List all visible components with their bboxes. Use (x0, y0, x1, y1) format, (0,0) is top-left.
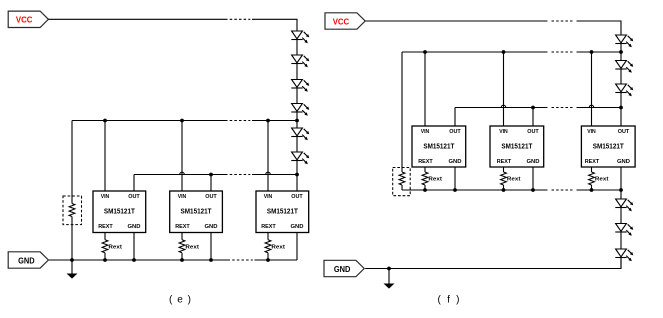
svg-text:GND: GND (527, 159, 540, 165)
svg-text:OUT: OUT (449, 129, 461, 135)
svg-text:REXT: REXT (261, 224, 276, 230)
crossover hop VIN3 riser over OUT bus (e) (266, 172, 271, 174)
bus REXT/GND (f) dashed continuation (552, 189, 573, 191)
svg-text:Rext: Rext (428, 177, 442, 183)
wire VIN6 riser (f) (591, 52, 593, 126)
resistor Rext1 (e) (102, 233, 122, 261)
bus OUT (e) dashed continuation (230, 174, 251, 176)
svg-text:Rext: Rext (271, 244, 285, 250)
LED D9 (f) (615, 84, 633, 96)
bus VIN (f) right segment (577, 51, 622, 53)
junction ground bus x=268 (e) (266, 258, 270, 262)
bus ground (e) right segment (255, 259, 298, 261)
wire OUT4 riser (f) (454, 108, 456, 127)
bus OUT (e) left segment (134, 174, 228, 176)
svg-text:VCC: VCC (16, 15, 33, 25)
bus ground (e) left segment (48, 259, 230, 261)
LED D3 (e) (291, 80, 309, 92)
wire VIN2 riser (e) (181, 121, 183, 192)
svg-text:(f): (f) (438, 295, 460, 306)
wire LED chain vertical (e) (296, 31, 298, 191)
svg-text:OUT: OUT (527, 129, 539, 135)
bus ground (e) dashed continuation (232, 259, 253, 261)
ground flag GND (e) (8, 252, 48, 268)
svg-text:VIN: VIN (499, 129, 508, 135)
wire GND5 riser (f) (532, 167, 534, 190)
wire left shunt stub to REXT bus (f) (401, 185, 403, 190)
LED D8 (f) (615, 61, 633, 73)
junction VIN bus x=297.0 (e) (295, 119, 299, 123)
junction REXT/GND bus x=455 (f) (453, 188, 457, 192)
junction OUT bus x=297.0 (e) (295, 173, 299, 177)
svg-text:(e): (e) (169, 295, 191, 306)
svg-text:REXT: REXT (98, 224, 113, 230)
svg-text:OUT: OUT (291, 194, 303, 200)
svg-text:REXT: REXT (497, 159, 512, 165)
resistor Rext3 (e) (265, 233, 285, 261)
wire VIN1 riser (e) (104, 121, 106, 192)
wire VIN3 riser (e) (267, 121, 269, 192)
wire VCC horizontal (f) right segment and drop to LED chain (577, 21, 622, 35)
op IC U6 SM15121T (f) (581, 126, 635, 167)
svg-text:GND: GND (449, 159, 462, 165)
junction VIN bus x=268 (e) (266, 119, 270, 123)
bus VIN (e) dashed continuation (230, 120, 251, 122)
svg-text:REXT: REXT (175, 224, 190, 230)
svg-text:VIN: VIN (587, 129, 596, 135)
op IC U2 SM15121T (e) (170, 191, 223, 233)
svg-text:VIN: VIN (264, 194, 273, 200)
wire left shunt vertical (f) (401, 52, 403, 172)
svg-text:Rext: Rext (507, 177, 521, 183)
LED D2 (e) (291, 55, 309, 67)
bus VIN (f) left segment (402, 51, 548, 53)
svg-text:GND: GND (291, 224, 304, 230)
bus ground (f) (365, 258, 621, 269)
wire GND6 riser (f) (620, 167, 622, 190)
junction ground bus x=105 (e) (103, 258, 107, 262)
junction ground bus ground-symbol tap (f) (387, 267, 391, 271)
wire left shunt vertical upper (e) (71, 121, 73, 204)
svg-text:VIN: VIN (178, 194, 187, 200)
power flag VCC (f) (325, 13, 365, 29)
svg-text:OUT: OUT (618, 129, 630, 135)
LED D7 (f) (615, 35, 633, 47)
junction ground bus x=134 (e) (132, 258, 136, 262)
ground flag GND (f) (324, 260, 364, 276)
LED D5 (e) (291, 128, 309, 140)
junction VIN bus x=591.5 (f) (590, 50, 594, 54)
LED D11 (f) (615, 224, 633, 236)
svg-text:SM15121T: SM15121T (104, 206, 135, 215)
bus VIN (e) right segment (252, 120, 297, 122)
svg-text:VCC: VCC (333, 16, 350, 26)
junction REXT/GND bus x=591.5 (f) (590, 188, 594, 192)
wire VCC horizontal (f) left segment (365, 20, 547, 22)
resistor Rext6 (f) (589, 167, 609, 190)
crossover hop VIN6 riser over OUT bus (f) (589, 105, 594, 107)
svg-text:VIN: VIN (101, 194, 110, 200)
wire OUT2 riser (e) (210, 175, 212, 192)
svg-text:Rext: Rext (108, 244, 122, 250)
junction VIN bus x=105 (e) (103, 119, 107, 123)
wire LED chain upper vertical (f) (620, 35, 622, 126)
svg-text:GND: GND (205, 224, 218, 230)
svg-text:Rext: Rext (595, 177, 609, 183)
svg-text:SM15121T: SM15121T (501, 141, 532, 150)
wire VIN4 riser (f) (424, 52, 426, 126)
LED D10 (f) (615, 199, 633, 211)
junction VIN bus x=182 (e) (180, 119, 184, 123)
svg-text:SM15121T: SM15121T (423, 141, 454, 150)
crossover hop VIN5 riser over OUT bus (f) (501, 105, 506, 107)
wire GND4 riser (f) (454, 167, 456, 190)
junction ground bus x=211 (e) (209, 258, 213, 262)
op IC U3 SM15121T (e) (256, 191, 309, 233)
svg-text:SM15121T: SM15121T (267, 206, 298, 215)
junction REXT/GND bus x=533 (f) (531, 188, 535, 192)
junction VIN bus x=503.5 (f) (502, 50, 506, 54)
junction REXT/GND bus x=621.0 (f) (619, 188, 623, 192)
svg-text:GND: GND (617, 159, 630, 165)
power flag VCC (e) (8, 11, 48, 27)
wire GND3 riser (e) (296, 233, 298, 261)
wire VCC horizontal (e) dashed continuation (230, 18, 251, 20)
resistor Rext4 (f) (422, 167, 442, 190)
op IC U4 SM15121T (f) (412, 126, 466, 167)
junction ground bus x=182 (e) (180, 258, 184, 262)
crossover hop VIN2 riser over OUT bus (e) (180, 172, 185, 174)
LED D1 (e) (291, 31, 309, 43)
bus OUT (e) right segment (252, 174, 297, 176)
svg-text:SM15121T: SM15121T (593, 141, 624, 150)
svg-text:REXT: REXT (418, 159, 433, 165)
svg-text:GND: GND (18, 255, 35, 265)
junction REXT/GND bus x=425 (f) (423, 188, 427, 192)
wire GND1 riser (e) (133, 233, 135, 261)
svg-text:GND: GND (334, 264, 351, 274)
bus REXT/GND (f) right segment (577, 189, 622, 191)
LED D12 (f) (615, 249, 633, 261)
op IC U1 SM15121T (e) (93, 191, 146, 233)
optional-resistor dashed outline (e) (63, 196, 82, 225)
svg-text:SM15121T: SM15121T (181, 206, 212, 215)
svg-text:GND: GND (128, 224, 141, 230)
junction OUT bus x=211 (e) (209, 173, 213, 177)
wire LED chain lower vertical (f) (620, 190, 622, 269)
bus OUT (f) right segment (577, 107, 622, 109)
junction REXT/GND bus x=503.5 (f) (502, 188, 506, 192)
optional-resistor dashed outline (f) (393, 168, 411, 196)
LED D6 (e) (291, 152, 309, 164)
ground symbol (e) (67, 260, 78, 279)
ground symbol (f) (384, 269, 395, 289)
wire OUT5 riser (f) (532, 108, 534, 127)
bus REXT/GND (f) left segment (402, 189, 548, 191)
op IC U5 SM15121T (f) (490, 126, 544, 167)
junction OUT bus x=621.0 (f) (619, 106, 623, 110)
wire GND2 riser (e) (210, 233, 212, 261)
wire VCC horizontal (e) right segment and drop to LED chain (252, 19, 297, 31)
wire VCC horizontal (f) dashed continuation (552, 20, 573, 22)
bus OUT (f) dashed continuation (552, 107, 573, 109)
svg-text:REXT: REXT (585, 159, 600, 165)
bus OUT (f) left segment (455, 107, 548, 109)
bus VIN (e) left segment (72, 120, 228, 122)
wire VCC horizontal (e) left segment (48, 18, 227, 20)
wire OUT1 riser (e) (133, 175, 135, 192)
junction OUT bus x=533 (f) (531, 106, 535, 110)
wire left shunt vertical lower (e) (71, 217, 73, 261)
svg-text:OUT: OUT (205, 194, 217, 200)
resistor R-shunt inside dashed box (f) (399, 172, 405, 185)
junction ground bus x=72.0 (e) (70, 258, 74, 262)
resistor R-shunt inside dashed box (e) (69, 204, 75, 217)
resistor Rext2 (e) (179, 233, 199, 261)
junction VIN bus x=621.0 (f) (619, 50, 623, 54)
wire VIN5 riser (f) (503, 52, 505, 126)
junction VIN bus x=425 (f) (423, 50, 427, 54)
svg-text:OUT: OUT (128, 194, 140, 200)
LED D4 (e) (291, 104, 309, 116)
svg-text:Rext: Rext (185, 244, 199, 250)
svg-text:VIN: VIN (421, 129, 430, 135)
bus VIN (f) dashed continuation (552, 51, 573, 53)
resistor Rext5 (f) (501, 167, 521, 190)
